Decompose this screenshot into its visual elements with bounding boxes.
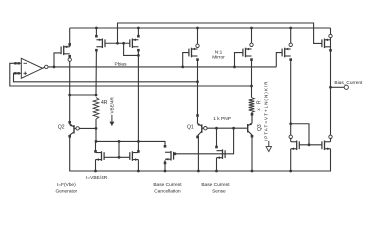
node Pbias junction P1 gate: [53, 66, 56, 69]
pin square Q1 collector: [196, 136, 199, 139]
wire P4 gate lead: [183, 53, 189, 67]
svg-text:Pbias: Pbias: [115, 61, 128, 67]
probe P6 source: [289, 43, 292, 46]
svg-text:Bias_Current: Bias_Current: [334, 80, 363, 86]
label 4R: [101, 100, 108, 106]
wire drain node horizontal: [96, 141, 165, 145]
pin square P1 drain: [68, 55, 71, 58]
pin square Q1 emitter: [196, 114, 199, 117]
wire P1 source riser: [69, 28, 71, 47]
wire Q1 Q3 base: [202, 127, 248, 129]
pin square Q2 collector: [68, 135, 71, 138]
node Q1 collector ground: [197, 170, 200, 173]
wire P4 drain Q1 emitter column: [197, 60, 199, 115]
wire P6 drain to M5: [290, 60, 292, 142]
svg-text:Base Current: Base Current: [201, 182, 230, 188]
pin square Q3 collector: [251, 135, 254, 138]
wire gates M5 M6: [299, 144, 322, 146]
wire P3 source riser: [137, 28, 139, 37]
pin square P3 drain: [137, 49, 140, 52]
wire P5 source riser: [251, 28, 253, 45]
node drain wire P3: [137, 140, 140, 143]
node P4 source rail: [196, 27, 199, 30]
probe Q1 base: [204, 127, 207, 130]
wire M1 source: [95, 160, 97, 171]
label Pbias: [115, 61, 128, 67]
label Bias_Current: [334, 80, 363, 86]
node M2 ground: [137, 170, 140, 173]
node bus1 Q1 emitter: [196, 80, 199, 83]
wire Q2 base: [74, 127, 96, 129]
svg-text:I=F(Vbe): I=F(Vbe): [57, 182, 76, 188]
node M4 gate base wire: [232, 127, 235, 130]
probe P4 source: [196, 44, 199, 47]
wire gates M1 M2: [104, 156, 130, 158]
label x: [256, 108, 261, 111]
wire R to Q3: [251, 113, 253, 122]
transistor Q2 (PNP): [70, 124, 74, 136]
label R: [256, 100, 262, 104]
svg-text:Base Current: Base Current: [153, 182, 182, 188]
node P6 source rail: [289, 27, 292, 30]
pin square M2 drain: [137, 150, 140, 153]
pin square P2 source: [95, 35, 98, 38]
wire P2 source riser: [95, 28, 97, 37]
transistor P7 (PMOS bias output): [322, 39, 331, 49]
node M5 drain link: [289, 122, 292, 125]
transistor Q1 (1k PNP): [198, 117, 202, 136]
wire P1 gate lead: [54, 53, 61, 67]
svg-text:IPTAT=VT+LN(N)K/R: IPTAT=VT+LN(N)K/R: [264, 81, 269, 141]
node M3 ground: [164, 170, 167, 173]
svg-text:Generator: Generator: [55, 189, 77, 195]
probe P1 drain: [68, 58, 71, 61]
wire gate rail (N:1 mirror gates): [118, 23, 322, 43]
node P3 diode drain: [137, 54, 140, 57]
pin square Q2 emitter: [68, 121, 71, 124]
wire Q1 collector: [197, 136, 199, 172]
node 4R top: [95, 94, 98, 97]
node M5 M6 gates: [308, 143, 311, 146]
port Bias_Current: [344, 85, 348, 89]
node drain wire left: [95, 140, 98, 143]
node P2 P3 gate riser: [116, 42, 119, 45]
wire M5 diode link: [291, 124, 309, 145]
op-amp U1: [13, 58, 43, 78]
node gates riser bottom: [118, 156, 121, 159]
label IPTAT: [264, 81, 269, 141]
node P5 gate Pbias: [233, 66, 236, 69]
node Q3 collector ground: [251, 170, 254, 173]
svg-text:Sense: Sense: [212, 189, 226, 195]
node M5 ground: [289, 170, 292, 173]
node Bias_Current tap: [329, 86, 332, 89]
op-amp output probe: [45, 65, 48, 68]
transistor P3 (PMOS VBE/4R mirror right): [130, 38, 139, 48]
probe Q2 base: [76, 127, 79, 130]
label Base Current Sense: [201, 182, 230, 194]
transistor M1 (NMOS I=VBE/4R left): [96, 151, 105, 161]
svg-text:I=VBE/4R: I=VBE/4R: [86, 175, 108, 181]
transistor M6 (NMOS out mirror): [322, 140, 331, 150]
wire P1 drain to Q2: [69, 58, 71, 121]
node drain wire riser: [118, 140, 121, 143]
pin square P2 drain: [95, 49, 98, 52]
resistor 4R: [93, 98, 99, 120]
wire P4 source riser: [197, 28, 199, 46]
node P3 source rail: [137, 27, 140, 30]
node P3 diode tap: [122, 42, 125, 45]
wire P5 gate lead: [235, 53, 243, 67]
label VBE/4R: [110, 96, 115, 113]
node M4 ground: [215, 170, 218, 173]
wire P7 M6 drain column: [330, 28, 332, 142]
svg-text:Mirror: Mirror: [212, 54, 225, 60]
label Q3: [257, 124, 263, 131]
probe M6 drain: [329, 135, 332, 138]
pin square P1 source: [68, 43, 71, 46]
pin square M4 drain: [215, 146, 218, 149]
wire P2 drain: [95, 50, 97, 95]
svg-text:VBE/4R: VBE/4R: [110, 96, 115, 113]
wire P2 P3 gates: [105, 42, 130, 44]
arrow VBE/4R: [109, 115, 114, 126]
transistor P6 (PMOS mirror out lower): [282, 48, 291, 58]
wire P5 drain R column: [251, 60, 253, 98]
transistor M3 (NMOS base current cancellation): [165, 151, 174, 161]
wire M4 source: [216, 158, 218, 171]
svg-text:Q1: Q1: [187, 124, 194, 130]
node M1 ground: [94, 170, 97, 173]
wire 4R top link: [70, 94, 96, 96]
svg-text:Q2: Q2: [58, 125, 65, 131]
label I=VBE/4R: [86, 175, 108, 181]
wire M4 gate riser: [174, 128, 234, 154]
svg-text:Q3: Q3: [257, 124, 263, 131]
pin square M1 drain: [94, 150, 97, 153]
wire M4 drain riser: [216, 128, 218, 147]
node M3 gate: [174, 152, 177, 155]
wire op-amp minus feedback (bus2): [10, 63, 252, 86]
wire op-amp plus feedback (bus1): [13, 73, 198, 82]
label 1 k PNP: [213, 116, 231, 122]
wire P3 M2 drain column: [137, 50, 139, 151]
arrow IPTAT: [266, 141, 271, 152]
node M4 drain base wire: [215, 127, 218, 130]
transistor M5 (NMOS out mirror diode): [291, 140, 300, 150]
node P2 source rail: [95, 27, 98, 30]
transistor P2 (PMOS VBE/4R mirror left): [96, 38, 105, 48]
pin square P5 drain: [250, 58, 253, 61]
wire ground rail: [70, 137, 331, 171]
svg-text:4R: 4R: [101, 100, 108, 106]
wire M3 source: [164, 160, 166, 171]
pin square P6 drain: [289, 58, 292, 61]
resistor R: [249, 98, 255, 113]
node P5 source rail: [250, 27, 253, 30]
wire VDD rail: [70, 27, 331, 29]
probe P5 source: [250, 43, 253, 46]
transistor P4 (PMOS N:1 mirror input): [189, 48, 198, 58]
transistor M4 (NMOS base current sense): [217, 149, 226, 159]
label Q2: [58, 125, 65, 131]
label I=F(Vbe) Generator: [55, 182, 77, 194]
wire Pbias riser to P6 gate: [276, 53, 282, 67]
transistor Q3 (PNP x N): [248, 116, 252, 136]
wire Q3 collector: [251, 136, 253, 171]
label Q1: [187, 124, 194, 130]
svg-text:Cancellation: Cancellation: [154, 189, 181, 195]
svg-text:R: R: [256, 100, 262, 104]
svg-text:1 k PNP: 1 k PNP: [213, 116, 231, 122]
label Base Current Cancellation: [153, 182, 182, 194]
pin square P7 drain: [329, 49, 332, 52]
pin square M3 source: [164, 162, 167, 165]
node 4R top left: [68, 94, 71, 97]
transistor P1 (PMOS servo): [61, 46, 70, 56]
pin square Q3 emitter: [251, 113, 254, 116]
wire Bias_Current stub: [331, 86, 345, 88]
label N:1 Mirror: [212, 50, 225, 61]
wire M1 drain riser: [95, 141, 97, 152]
pin square P3 source: [137, 35, 140, 38]
node bus2 R top: [250, 85, 253, 88]
wire VBE drain node: [95, 119, 97, 141]
wire M2 source: [137, 160, 139, 171]
wire Pbias distribution: [44, 66, 276, 68]
probe P7 source: [329, 34, 332, 37]
pin square P4 drain: [196, 58, 199, 61]
wire P3 diode link: [124, 43, 139, 55]
node P4 gate Pbias: [181, 66, 184, 69]
pin square M3 drain: [164, 145, 167, 148]
probe M5 drain: [289, 135, 292, 138]
wire P6 source riser: [290, 28, 292, 45]
wire gates riser: [118, 141, 120, 157]
transistor M2 (NMOS diode): [130, 151, 139, 161]
node Q2 base 4R: [95, 127, 98, 130]
wire M5 source: [290, 149, 292, 171]
op-amp output lead: [43, 67, 46, 68]
transistor P5 (PMOS IPTAT): [243, 48, 252, 58]
